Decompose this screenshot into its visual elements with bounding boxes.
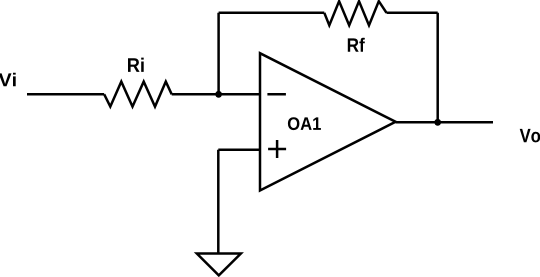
wire: riser from node A up to feedback rail (217, 13, 220, 95)
wire: Vi input to Ri (27, 93, 104, 96)
label Ri (128, 58, 144, 72)
resistor Ri (104, 82, 172, 107)
op-amp OA1 triangle body (260, 53, 396, 190)
op-amp non-inverting input marker (plus) (268, 140, 286, 158)
resistor Rf (324, 1, 386, 25)
node B: output junction (434, 119, 441, 126)
label OA1 (288, 117, 321, 130)
wire: op-amp output (396, 121, 493, 124)
wire: Ri to op-amp inverting input (172, 93, 260, 96)
node A: inverting input junction (215, 91, 222, 98)
wire: ground drop vertical (217, 150, 220, 254)
label Rf (348, 38, 365, 52)
wire: top feedback rail left (219, 12, 325, 15)
wire: riser from feedback rail down to output node (436, 13, 439, 123)
ground (197, 254, 241, 276)
op-amp inverting input marker (minus) (267, 93, 286, 96)
wire: top feedback rail right (387, 12, 438, 15)
wire: non-inverting input to ground drop (218, 149, 259, 152)
label Vo (520, 129, 540, 143)
label Vi (0, 73, 16, 87)
